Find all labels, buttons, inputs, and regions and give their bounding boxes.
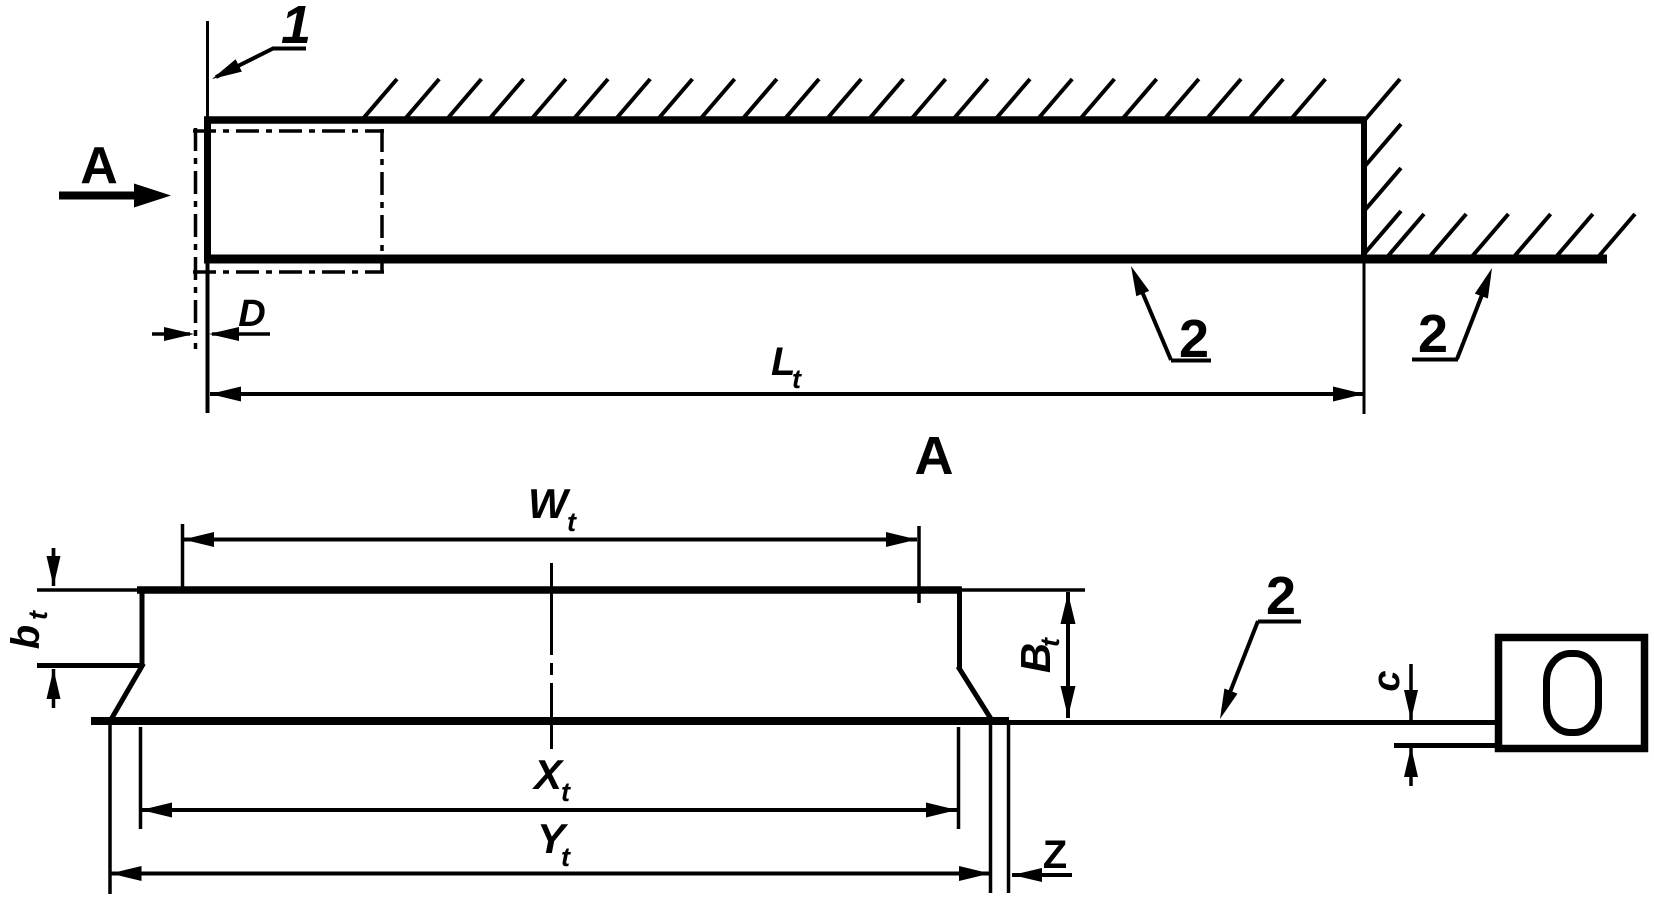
svg-text:2: 2 — [1418, 304, 1448, 364]
svg-text:t: t — [561, 777, 571, 807]
dimension Wt (width of tape top) — [183, 480, 920, 603]
section top surface (tape backing top) — [137, 586, 961, 594]
svg-text:W: W — [528, 480, 571, 527]
dimension Xt (width at web base) — [141, 727, 959, 829]
section right flare (adhesive fillet) — [958, 667, 992, 721]
svg-text:D: D — [238, 293, 265, 335]
wall hatching above plate line (right) — [1388, 214, 1635, 256]
take-up roller box with O mark — [1499, 638, 1645, 749]
dimension bt (backing thickness) — [4, 548, 140, 708]
tape lower line entering roller box — [1394, 743, 1498, 748]
wall hatching above bar (top) — [361, 79, 1400, 121]
specimen bar top outline — [204, 116, 1365, 124]
view direction label A with arrow — [59, 137, 171, 208]
label 2 leader (plate, under specimen) — [1131, 266, 1211, 369]
section centerline (dash-dot) — [550, 563, 553, 749]
dimension Z (fillet overhang) — [991, 725, 1073, 893]
svg-text:t: t — [561, 842, 571, 872]
svg-text:Z: Z — [1043, 833, 1067, 877]
svg-text:t: t — [23, 610, 53, 620]
section left flare (adhesive fillet) — [111, 664, 144, 720]
svg-text:c: c — [1366, 670, 1408, 691]
dimension c (tape thickness at roller) — [1366, 664, 1418, 786]
svg-text:2: 2 — [1266, 566, 1296, 626]
specimen bar right end edge at wall — [1361, 117, 1367, 263]
plate surface thin line to roller box — [1009, 720, 1498, 725]
dimension D (offset between wall line and clamp line) — [152, 293, 270, 341]
label 1 (specimen) with leader arrow — [212, 0, 311, 79]
dimension Yt (overall width incl. fillets) — [110, 725, 990, 894]
dimension Lt (free length of specimen) — [210, 340, 1364, 402]
svg-text:A: A — [80, 137, 118, 195]
svg-text:t: t — [792, 364, 802, 394]
section right edge — [957, 587, 962, 670]
clamp block hidden outline (dash-dot rectangle) — [193, 128, 384, 349]
label 2 leader (plate, right of wall) — [1412, 268, 1492, 364]
dimension Bt (total tape height) — [1012, 592, 1076, 718]
specimen bar left end edge — [204, 117, 211, 262]
section left edge — [140, 587, 145, 667]
wall fixture edge vertical line (left) — [206, 21, 209, 120]
svg-text:t: t — [1035, 637, 1065, 647]
svg-text:A: A — [915, 426, 954, 486]
wall hatching along right vertical edge — [1365, 124, 1401, 253]
label 2 leader (plate, section view) — [1220, 566, 1301, 719]
section bottom line (plate surface, thick) — [91, 717, 1009, 725]
section top surface thin extensions — [37, 588, 1085, 592]
svg-text:b: b — [4, 625, 48, 649]
specimen bar / plate bottom outline — [204, 255, 1607, 264]
svg-text:t: t — [567, 507, 577, 537]
